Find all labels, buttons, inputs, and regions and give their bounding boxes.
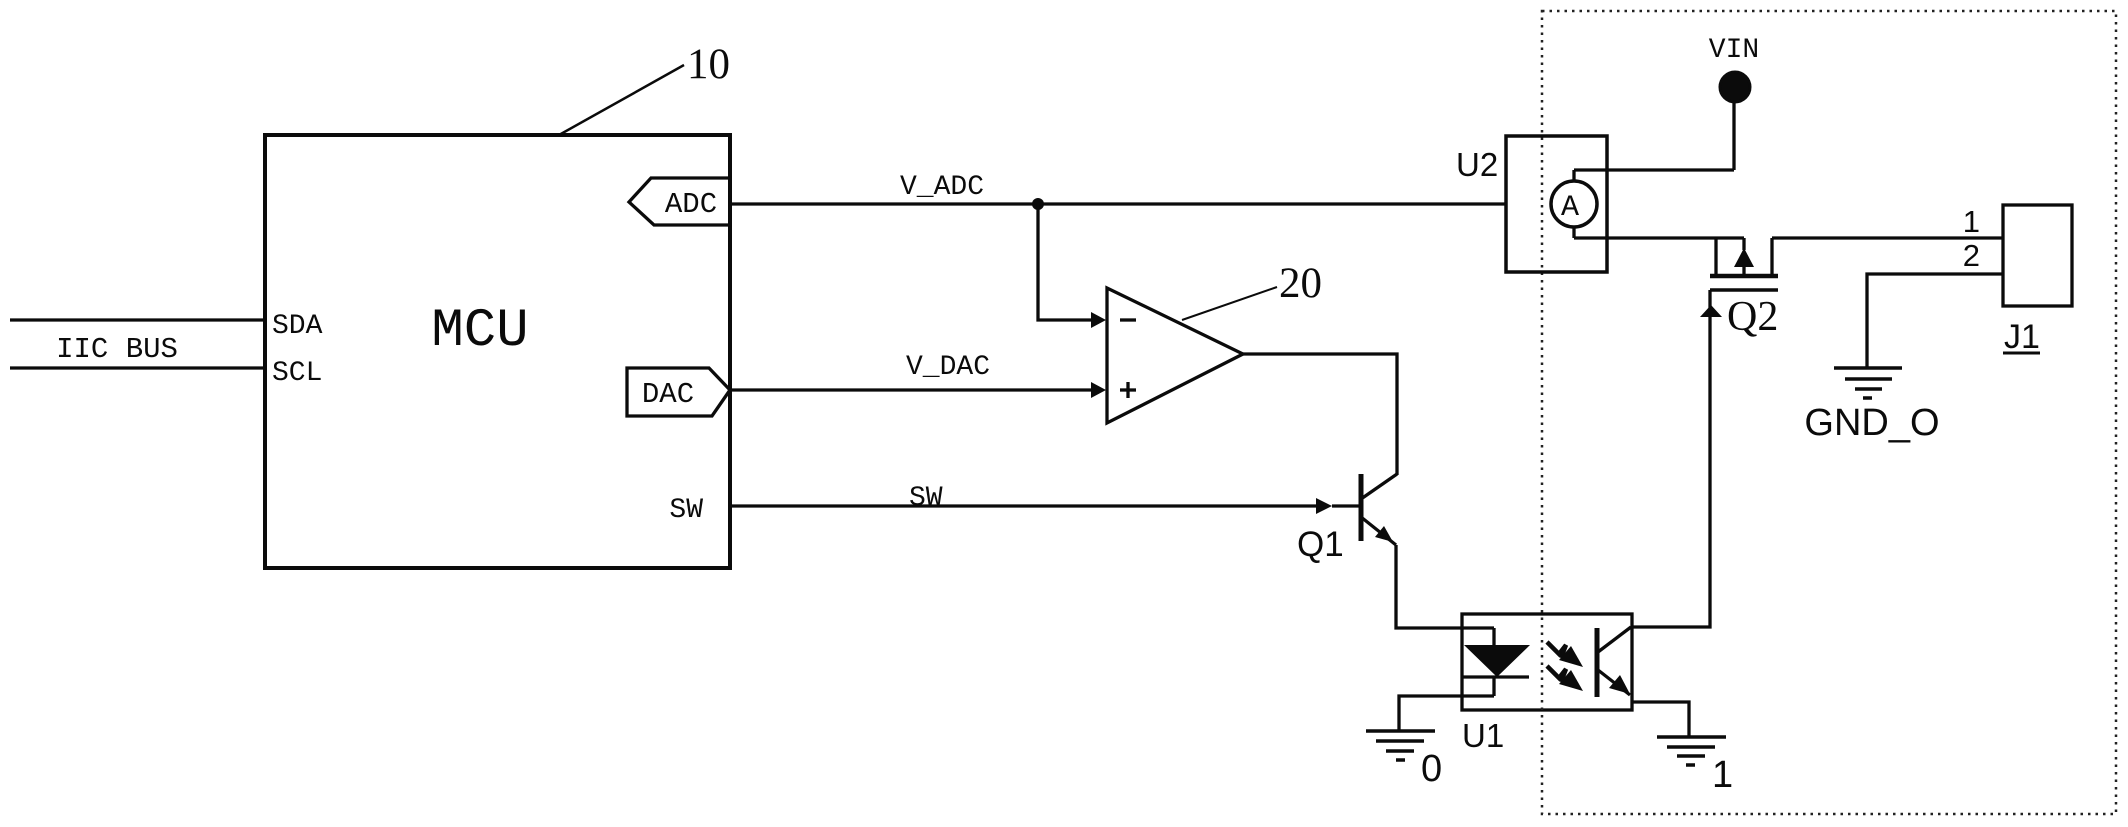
pin ADC port shape [629, 178, 730, 225]
dotted region border [1542, 11, 2116, 814]
op-amp minus sign [1120, 318, 1136, 321]
svg-text:Q2: Q2 [1727, 294, 1778, 340]
svg-text:SW: SW [669, 495, 703, 526]
U1 LED anode lead [1492, 628, 1495, 646]
svg-text:SDA: SDA [272, 311, 323, 342]
wire junction to op-amp inverting input [1038, 204, 1095, 320]
svg-text:20: 20 [1279, 260, 1322, 307]
svg-text:SCL: SCL [272, 358, 322, 389]
svg-text:1: 1 [1963, 204, 1980, 239]
mosfet Q2 middle leg stem [1742, 267, 1745, 276]
svg-text:2: 2 [1963, 238, 1980, 273]
transistor Q1 collector [1361, 474, 1397, 499]
svg-text:V_DAC: V_DAC [906, 352, 990, 383]
arrow on gate wire [1700, 305, 1722, 317]
wire ammeter top stub [1572, 170, 1575, 182]
wire SDA bus [10, 318, 265, 321]
mosfet Q2 middle leg [1742, 238, 1745, 250]
U1 phototransistor emitter arrow [1609, 675, 1630, 694]
U1 LED triangle [1464, 645, 1530, 677]
pin DAC port shape [627, 368, 730, 416]
svg-text:VIN: VIN [1709, 35, 1759, 66]
mosfet Q2 gate bar [1710, 288, 1778, 292]
arrow on SW wire [1316, 498, 1332, 514]
svg-text:SW: SW [909, 483, 943, 514]
svg-text:J1: J1 [2004, 318, 2040, 356]
svg-text:MCU: MCU [431, 301, 528, 362]
connector J1 box [2003, 205, 2072, 306]
wire phototransistor emitter to ground 1 [1632, 702, 1689, 737]
op-amp plus sign [1120, 388, 1136, 391]
svg-text:A: A [1561, 191, 1579, 225]
mosfet Q2 right leg [1770, 238, 1773, 276]
wire ammeter bottom stub [1572, 227, 1575, 238]
ammeter A circle [1551, 181, 1597, 227]
svg-text:U2: U2 [1456, 146, 1498, 183]
optocoupler U1 box [1462, 614, 1632, 710]
svg-text:DAC: DAC [642, 378, 694, 411]
U1 phototransistor base bar [1595, 628, 1600, 697]
svg-text:V_ADC: V_ADC [900, 172, 984, 203]
transistor Q1 base bar [1359, 474, 1364, 541]
svg-text:GND_O: GND_O [1804, 402, 1939, 444]
svg-text:U1: U1 [1462, 717, 1504, 754]
op-amp U 20 triangle [1107, 288, 1243, 423]
wire ammeter to Q2 drain [1574, 236, 1744, 239]
wire VIN drop [1732, 103, 1735, 170]
wire SCL bus [10, 366, 265, 369]
wire arrow to Q1 base [1332, 504, 1359, 507]
U1 phototransistor emitter [1598, 670, 1630, 695]
light arrow 1 [1547, 642, 1583, 667]
current sensor U2 box [1506, 136, 1607, 272]
svg-text:Q1: Q1 [1297, 525, 1344, 564]
wire Q2 source to J1 pin 1 [1772, 236, 2003, 239]
junction node on V_ADC [1032, 198, 1044, 210]
light arrow 2 [1547, 666, 1583, 691]
wire V_DAC net [730, 388, 1095, 391]
transistor Q1 emitter arrow [1375, 526, 1393, 542]
wire V_ADC net [730, 202, 1506, 205]
svg-text:ADC: ADC [665, 188, 717, 221]
transistor Q1 emitter [1361, 517, 1396, 545]
power VIN terminal [1720, 72, 1750, 102]
wire phototransistor collector to Q2 gate [1631, 290, 1710, 627]
wire SW net [730, 504, 1317, 507]
leader line to 10 [559, 65, 684, 135]
svg-text:10: 10 [687, 41, 730, 88]
arrow into inverting input [1091, 312, 1106, 328]
mosfet Q2 left leg [1714, 238, 1717, 276]
ground 0 symbol [1366, 729, 1435, 733]
wire J1 pin 2 to GND_O [1867, 274, 2003, 368]
ground 1 symbol [1657, 735, 1726, 739]
mosfet Q2 body arrow [1734, 248, 1754, 267]
U1 phototransistor collector [1598, 627, 1631, 652]
wire LED cathode to ground 0 [1399, 696, 1494, 731]
ground GND_O symbol [1834, 366, 1902, 370]
wire ammeter to VIN [1574, 168, 1734, 171]
MCU U-block box 10 [265, 135, 730, 568]
svg-text:0: 0 [1421, 748, 1442, 790]
svg-text:IIC BUS: IIC BUS [56, 333, 178, 366]
mosfet Q2 channel bar [1710, 274, 1778, 279]
arrow into non-inverting input [1091, 382, 1106, 398]
leader line to 20 [1182, 287, 1277, 320]
U1 LED cathode bar [1462, 675, 1529, 678]
U1 LED cathode lead [1492, 677, 1495, 696]
svg-text:1: 1 [1712, 754, 1733, 796]
wire Q1 emitter to optocoupler anode pin [1396, 545, 1494, 628]
wire op-amp output to Q1 collector [1243, 354, 1397, 475]
